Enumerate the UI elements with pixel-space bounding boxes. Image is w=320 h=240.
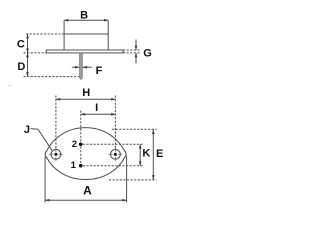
dimension C top arrow: [26, 34, 29, 39]
dimension G upper arrow line: [135, 40, 137, 51]
flange bottom extension to C/D: [24, 52, 47, 54]
dimension E line: [152, 129, 154, 180]
pin 1 line to K: [83, 165, 143, 167]
cap left wall / B left extension: [63, 20, 65, 50]
right mounting hole: [111, 149, 121, 159]
pin 1: [79, 164, 83, 168]
svg-text:H: H: [82, 87, 90, 99]
svg-text:F: F: [96, 65, 103, 77]
left mounting hole: [51, 149, 61, 159]
svg-text:K: K: [142, 148, 150, 160]
dimension D top arrow: [26, 53, 29, 58]
svg-text:B: B: [80, 9, 88, 21]
dimension G extension ticks: [123, 49, 141, 51]
transistor lead: [80, 53, 83, 80]
dimension D bottom extension line: [24, 76, 80, 78]
dimension I line: [81, 113, 116, 115]
cap top line with C extension: [26, 33, 64, 35]
dimension G lower arrow line: [135, 53, 137, 64]
dimension K line: [139, 144, 141, 165]
svg-text:C: C: [17, 38, 25, 50]
dimension B left arrow: [64, 19, 69, 22]
cap right wall: [107, 20, 109, 50]
flange outline side view: [46, 50, 123, 53]
dimension A right extension: [126, 156, 128, 202]
svg-text:A: A: [83, 183, 92, 197]
dimension B line: [64, 19, 108, 21]
extension line right hole to H and I: [114, 96, 116, 150]
faint scan speck: [9, 85, 11, 87]
package flange outline bottom view: [45, 128, 126, 180]
svg-text:E: E: [156, 148, 163, 160]
svg-text:G: G: [143, 47, 152, 59]
dimension D line: [27, 53, 29, 77]
dimension C line: [27, 34, 29, 53]
extension line left hole to H: [55, 96, 57, 150]
pin 2: [79, 143, 83, 147]
dimension D bottom arrow: [26, 72, 29, 77]
dimension F right arrow line: [83, 66, 92, 68]
dimension A left extension: [44, 157, 46, 203]
dimension F left arrow line: [72, 66, 80, 68]
dimension C bottom arrow: [26, 49, 29, 54]
dimension B right arrow: [104, 19, 109, 22]
dimension A line: [45, 199, 127, 201]
svg-text:2: 2: [72, 139, 77, 150]
dimension E top extension: [112, 128, 157, 130]
extension line pin2 to I: [80, 111, 82, 166]
svg-text:D: D: [17, 61, 25, 73]
svg-text:I: I: [95, 102, 98, 114]
J leader line: [31, 129, 52, 151]
svg-text:1: 1: [71, 160, 77, 171]
svg-text:J: J: [24, 124, 30, 136]
dimension H line: [56, 98, 116, 100]
dimension E bottom extension: [109, 179, 157, 181]
pin 2 line to K: [83, 143, 143, 145]
